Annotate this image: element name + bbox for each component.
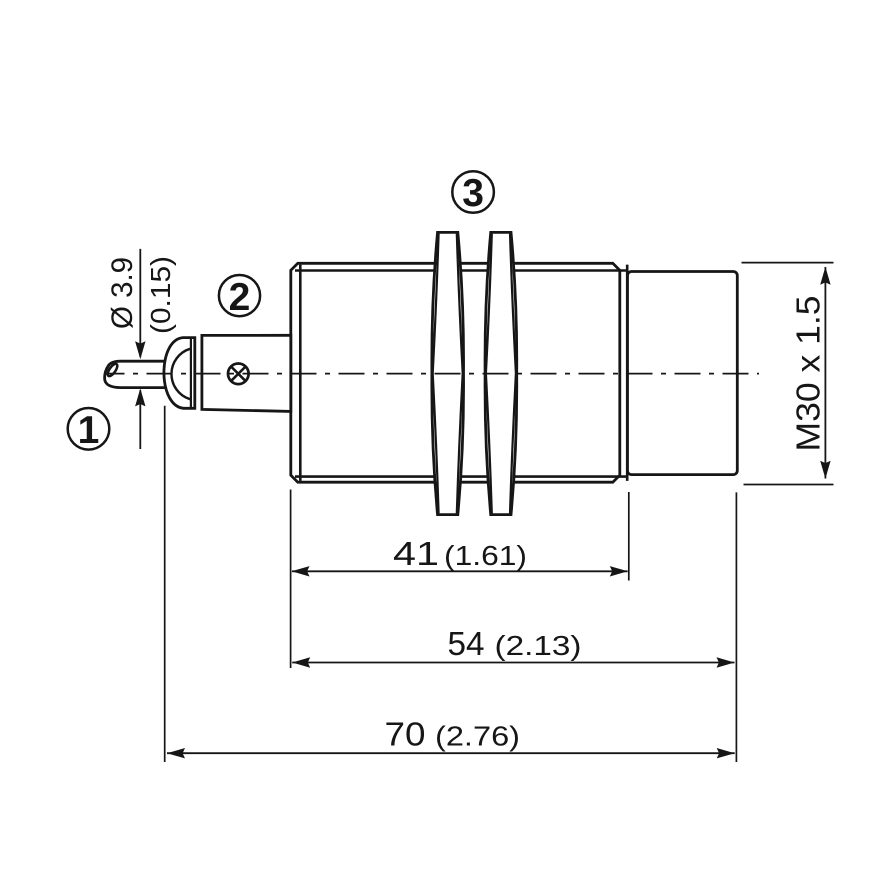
thread chamfer line right [626, 265, 629, 481]
svg-text:3: 3 [462, 172, 484, 215]
M30 dim line [824, 267, 826, 479]
thread root line top [295, 269, 627, 272]
dimension texts [106, 256, 827, 753]
svg-text:(1.61): (1.61) [444, 540, 527, 571]
center line (dash-dot axis) [104, 373, 759, 375]
nut 2 outer profile [485, 232, 517, 514]
extension line left of 70 [164, 406, 166, 762]
svg-text:54: 54 [448, 625, 485, 662]
arrowheads M30 [820, 267, 830, 285]
svg-text:M30 x 1.5: M30 x 1.5 [790, 296, 827, 452]
nut 2 left facet line [486, 234, 492, 514]
nut 1 outer profile [432, 232, 464, 514]
extension line right of 54/70 [735, 492, 737, 762]
dimensions [140, 249, 833, 762]
svg-text:70: 70 [385, 716, 426, 753]
circled item labels [68, 171, 494, 452]
nut 2 right facet line [510, 234, 516, 514]
arrowheads dia 3.9 [135, 341, 145, 359]
nut 1 left facet line [433, 234, 439, 514]
M30 extension top [742, 262, 834, 264]
cap inner arc [171, 349, 190, 399]
svg-text:(2.13): (2.13) [495, 630, 582, 661]
dim line 54 [292, 662, 734, 664]
dia 3.9 dim line lower [139, 390, 141, 449]
rear cylinder (sensor back body) [628, 272, 738, 475]
label 3 [452, 171, 494, 213]
arrowheads 41 [292, 566, 310, 576]
barrel outer outline (M30 threaded body) [291, 263, 620, 482]
arrowheads 70 [167, 748, 185, 758]
M30 extension bottom [744, 484, 834, 486]
pin end cut face (tilted ellipse) [106, 362, 119, 377]
arrowheads 54 [292, 657, 310, 667]
svg-text:41: 41 [393, 535, 439, 572]
connector body (item 2 housing) [202, 335, 291, 411]
svg-text:(0.15): (0.15) [145, 256, 176, 334]
dim line 41 [292, 570, 628, 572]
label 2 [219, 275, 260, 316]
nut 1 right facet line [457, 234, 463, 514]
svg-text:(2.76): (2.76) [435, 721, 520, 752]
extension line right of 41 [628, 492, 630, 581]
connection pin / cable tail [105, 361, 170, 387]
thread root line bottom [295, 475, 627, 478]
label 1 [68, 408, 110, 450]
extension line left of 41/54 [290, 490, 292, 669]
dia 3.9 dim line upper [139, 249, 141, 357]
connector cap dome [164, 338, 195, 409]
cap ring line [190, 338, 192, 407]
svg-text:2: 2 [229, 276, 251, 319]
svg-text:Ø 3.9: Ø 3.9 [106, 257, 139, 329]
crossed-circle marker (mounting screw symbol) [228, 364, 249, 385]
dim line 70 [167, 752, 735, 754]
thread chamfer line left [299, 265, 302, 481]
svg-text:1: 1 [78, 409, 100, 452]
